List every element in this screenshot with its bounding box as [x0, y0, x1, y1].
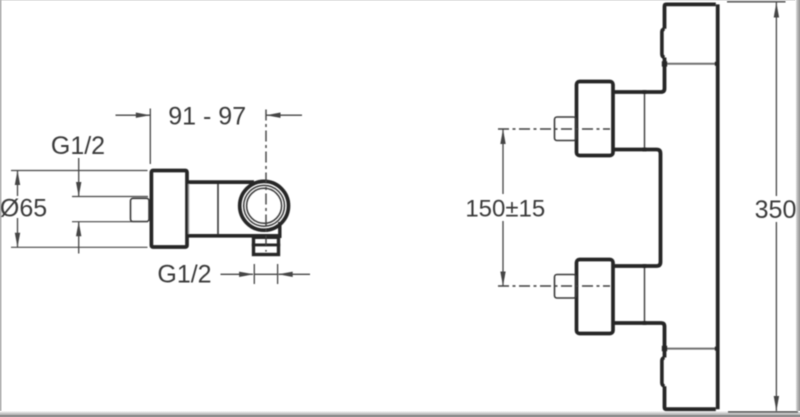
shower bar top cap outline: [613, 4, 716, 92]
vertical centerline through head: [265, 110, 267, 252]
dimension G1/2 (bottom): mid segment: [254, 273, 277, 275]
svg-text:G1/2: G1/2: [157, 261, 211, 289]
dimension 91-97: extension line: [149, 109, 151, 165]
dimension 350: dim line with outward arrows: [774, 3, 779, 412]
bottom gray band: [0, 415, 800, 417]
dimension D65: dim line with outward arrows: [15, 171, 20, 248]
bottom escutcheon joint line: [644, 266, 646, 323]
dimension G1/2 (bottom): right tail and arrow: [278, 272, 310, 277]
junction dot left of top joint: [662, 61, 667, 66]
bar bottom cap outline: [613, 323, 716, 409]
dimension 350: bottom extension line: [728, 411, 798, 413]
dimension 91-97: left tail and arrow: [116, 113, 151, 118]
junction dot right of top joint: [715, 62, 719, 66]
arm top edge: [187, 180, 254, 184]
handle stub (side view): [131, 198, 150, 221]
central body between handles: [613, 150, 661, 267]
top border: [0, 0, 800, 1]
dimension G1/2 (bottom): left tail and arrow: [221, 272, 254, 277]
dimension 350: top extension line: [727, 1, 786, 3]
dimension D65: extension lines: [11, 171, 148, 248]
hidden joint line behind arm: [188, 184, 190, 235]
bottom handle centerline: [498, 285, 610, 287]
bottom handle stub (front view): [555, 275, 577, 299]
dimension 150+-15: dim line with outward arrows: [500, 129, 505, 286]
bar right edge: [716, 4, 720, 409]
stub extension lines: [72, 197, 148, 222]
bottom handle block (front view): [577, 260, 614, 334]
junction dot right of bottom joint: [715, 347, 719, 351]
arm bottom edge: [187, 234, 281, 238]
svg-text:350: 350: [755, 196, 797, 224]
mixer body block (side view): [151, 171, 187, 248]
bar top joint line: [665, 63, 717, 65]
junction dot bottom of joint: [643, 148, 647, 152]
right gray rule: [795, 0, 800, 417]
top handle centerline: [498, 128, 610, 130]
bar top clip bump: [662, 29, 665, 58]
head middle ring: [244, 185, 285, 226]
junction dot top of bottom joint: [643, 264, 647, 268]
junction dot top of joint: [643, 90, 647, 94]
bar bottom clip bump: [662, 358, 665, 387]
bar bottom joint line: [665, 348, 717, 350]
top handle block (front view): [577, 82, 614, 156]
outlet fitting: [252, 237, 280, 254]
svg-text:150±15: 150±15: [465, 195, 545, 222]
head outer circle (thick): [240, 181, 289, 230]
head right lower edge to outlet: [278, 222, 281, 238]
svg-text:91 - 97: 91 - 97: [168, 102, 246, 130]
svg-text:Ø65: Ø65: [0, 195, 47, 223]
dimension G1/2 (top): lower leader with up arrow: [76, 222, 81, 254]
left border: [0, 0, 2, 417]
top handle stub (front view): [555, 117, 577, 141]
dimension 91-97: right tail and arrow: [266, 113, 302, 118]
junction dot left of bottom joint: [662, 346, 667, 351]
dimension G1/2 (bottom): tick marks: [254, 264, 277, 284]
junction dot bottom of bottom joint: [643, 321, 647, 325]
top escutcheon joint line: [644, 92, 646, 150]
dimension G1/2 (top): upper leader with down arrow: [76, 158, 81, 197]
svg-text:G1/2: G1/2: [51, 132, 105, 160]
bottom light rule: [0, 411, 800, 415]
arm divider line: [217, 184, 219, 235]
head inner ring: [247, 188, 282, 223]
